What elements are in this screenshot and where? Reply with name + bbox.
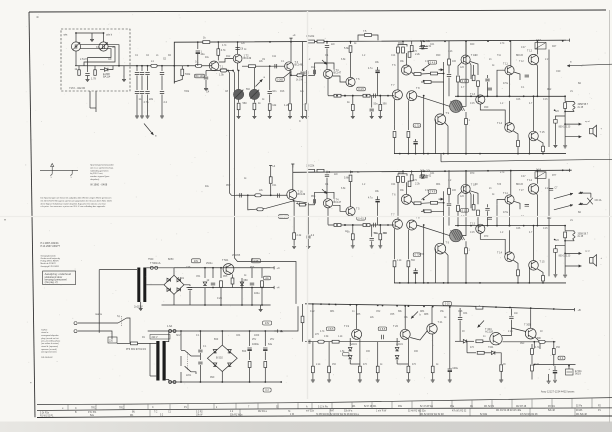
svg-text:R88: R88 bbox=[424, 314, 429, 316]
junction J129 bbox=[241, 304, 243, 306]
head top wire bbox=[76, 33, 104, 42]
wire bbox=[249, 331, 251, 346]
svg-text:5.6k: 5.6k bbox=[344, 47, 349, 50]
junction J108 (ch2) bbox=[564, 253, 566, 255]
junction J96 (ch2) bbox=[465, 282, 467, 284]
table column tick t9 bbox=[257, 403, 259, 408]
svg-text:C21: C21 bbox=[430, 44, 435, 46]
junction J155 bbox=[404, 305, 406, 307]
diode GD1 bbox=[105, 68, 108, 72]
svg-text:C14: C14 bbox=[391, 55, 396, 57]
wire (ch1) bbox=[458, 62, 462, 75]
capacitor C1a1 bbox=[140, 73, 144, 75]
wire (ch1) bbox=[528, 138, 530, 154]
junction J21 bbox=[487, 40, 489, 42]
feedback wire ch2 bbox=[248, 195, 294, 210]
wire bbox=[459, 321, 461, 342]
resistor R127 (ch1) bbox=[397, 47, 400, 53]
svg-text:S1/S2:: S1/S2: bbox=[41, 330, 48, 332]
wire (ch1) bbox=[509, 101, 511, 123]
wire (ch2) bbox=[564, 266, 566, 275]
svg-text:T 6: T 6 bbox=[392, 193, 396, 196]
wire (ch1) bbox=[421, 73, 431, 76]
wire (ch2) bbox=[487, 211, 489, 225]
boxed label (ch2) bbox=[413, 253, 421, 257]
wire arrow into driver (ch1) bbox=[439, 69, 444, 71]
svg-text:W 1960 - 0408: W 1960 - 0408 bbox=[90, 182, 108, 186]
junction J6 bbox=[147, 65, 149, 67]
table column tick t2 bbox=[95, 405, 97, 410]
junction J56 (ch1) bbox=[447, 153, 449, 155]
svg-text:W1 R1 52 48 R2 W1 48a: W1 R1 52 48 R2 W1 48a bbox=[496, 410, 522, 412]
wire bbox=[174, 76, 182, 82]
wire (ch1) bbox=[470, 63, 472, 80]
resistor R136 (ch2) bbox=[472, 205, 475, 211]
svg-text:W1 52 48 R2 W1 52 R2: W1 52 48 R2 W1 52 R2 bbox=[420, 414, 445, 416]
resistor R313 bbox=[500, 365, 503, 372]
junction J131 bbox=[251, 304, 253, 306]
terminal rail ch2 bbox=[566, 169, 570, 172]
wire bbox=[467, 352, 476, 354]
svg-text:T 7: T 7 bbox=[391, 84, 395, 87]
svg-text:CD 4A: CD 4A bbox=[595, 199, 602, 202]
label leader line (ch1) bbox=[422, 64, 431, 70]
capacitor C301 bbox=[308, 340, 310, 344]
svg-text:R70: R70 bbox=[470, 173, 475, 175]
capacitor C101 bbox=[85, 74, 89, 76]
junction J85 (ch2) bbox=[457, 225, 459, 227]
wire bbox=[238, 110, 240, 116]
wire bbox=[238, 100, 240, 103]
svg-text:7172 - 342.00: 7172 - 342.00 bbox=[69, 86, 86, 90]
junction J163 bbox=[530, 307, 532, 309]
wire (ch2) bbox=[465, 254, 467, 283]
margin speck2 bbox=[30, 382, 32, 383]
svg-text:24V: 24V bbox=[194, 260, 199, 263]
junction J111 bbox=[328, 171, 330, 173]
junction J33 (ch1) bbox=[379, 95, 381, 97]
wire (ch1) bbox=[411, 41, 413, 45]
wire bbox=[554, 366, 556, 370]
svg-text:470u: 470u bbox=[503, 83, 509, 85]
wire (ch1) bbox=[377, 73, 379, 96]
svg-text:1000: 1000 bbox=[254, 335, 260, 337]
junction J166 bbox=[533, 341, 535, 343]
wire (ch1) bbox=[513, 131, 518, 140]
svg-text:0 365: 0 365 bbox=[277, 79, 284, 82]
boxed label bbox=[264, 276, 271, 280]
wire (ch1) bbox=[326, 41, 328, 44]
resistor R302 bbox=[332, 340, 339, 343]
svg-text:BC148: BC148 bbox=[295, 64, 303, 67]
wire (ch2) bbox=[394, 229, 396, 259]
fuse box F101 (ch2) bbox=[535, 172, 546, 179]
ground (ch2) bbox=[563, 275, 567, 277]
svg-text:8Ω: 8Ω bbox=[578, 212, 581, 214]
table column tick t23 bbox=[531, 399, 533, 407]
table column tick u3 bbox=[329, 409, 331, 415]
wire bbox=[249, 352, 251, 361]
junction J149 bbox=[335, 304, 337, 306]
junction J68 (ch1) bbox=[564, 111, 566, 113]
wire (ch2) bbox=[397, 182, 399, 219]
wire (ch2) bbox=[514, 201, 520, 209]
wire bbox=[220, 268, 222, 278]
wire bbox=[241, 278, 243, 288]
table column tick u4 bbox=[419, 409, 421, 416]
svg-text:100u 10k: 100u 10k bbox=[420, 40, 431, 43]
wire (ch1) bbox=[510, 41, 512, 66]
wire (ch2) bbox=[371, 225, 373, 237]
electrolytic C303 bbox=[448, 368, 452, 370]
svg-text:2x115V: 2x115V bbox=[134, 305, 143, 309]
wire bbox=[232, 274, 234, 278]
wire bbox=[306, 70, 308, 103]
wire bbox=[306, 110, 308, 116]
junction J92 (ch2) bbox=[399, 282, 401, 284]
terminal +4 bbox=[271, 286, 275, 289]
signal bus channel 1 bbox=[75, 65, 212, 67]
wire (ch2) bbox=[431, 203, 443, 212]
svg-text:B 502: B 502 bbox=[216, 356, 223, 360]
junction J97 (ch2) bbox=[517, 282, 519, 284]
wire (ch1) bbox=[379, 111, 381, 117]
junction J114 bbox=[423, 170, 425, 172]
svg-text:9019: 9019 bbox=[575, 372, 581, 376]
wire bbox=[350, 363, 360, 365]
svg-text:64u: 64u bbox=[268, 343, 273, 346]
capacitor C204 (ch2) bbox=[549, 188, 553, 190]
table column tick t15 bbox=[371, 402, 373, 408]
wire bbox=[359, 373, 361, 380]
resistor R101 bbox=[78, 70, 81, 76]
svg-text:2x 61: 2x 61 bbox=[426, 175, 432, 177]
junction J113 bbox=[402, 171, 404, 173]
wire bbox=[94, 66, 96, 70]
svg-text:7k R5 W2 R1 52 48 R2 W1 52 48: 7k R5 W2 R1 52 48 R2 W1 52 48 R2 W1 a bbox=[316, 414, 360, 416]
wire T12 emitter (ch1) bbox=[536, 64, 539, 97]
svg-text:T304: T304 bbox=[488, 347, 494, 349]
svg-text:C64: C64 bbox=[236, 335, 241, 337]
table column tick t8 bbox=[235, 404, 237, 409]
wire bbox=[221, 372, 223, 383]
svg-text:52 R4k: 52 R4k bbox=[480, 414, 488, 416]
transistor T111 (ch2) bbox=[505, 195, 514, 204]
capacitor C1a0 bbox=[135, 73, 139, 75]
wire (ch2) bbox=[407, 230, 409, 259]
supply rail channel 2 bbox=[293, 170, 572, 172]
wire (ch1) bbox=[477, 86, 479, 96]
diode D510 bbox=[213, 350, 217, 353]
svg-text:mit 20 kOhm/V Messgerat; gemes: mit 20 kOhm/V Messgerat; gemessen gegenu… bbox=[41, 199, 113, 202]
resistor R137 (ch2) bbox=[477, 210, 480, 216]
junction J11 bbox=[217, 41, 219, 43]
ground bbox=[306, 247, 310, 249]
wire bbox=[136, 76, 138, 91]
signal bus ch1 part2 bbox=[242, 65, 285, 67]
svg-text:0 20: 0 20 bbox=[445, 303, 450, 306]
resistor R304 bbox=[328, 366, 331, 373]
wire (ch2) bbox=[565, 238, 574, 241]
svg-text:BC149: BC149 bbox=[298, 193, 306, 196]
resistor R120 (ch1) bbox=[308, 40, 315, 43]
wire (ch1) bbox=[407, 138, 409, 154]
diode D310 bbox=[463, 340, 466, 344]
resistor R141 (ch2) bbox=[542, 276, 545, 282]
junction J100 (ch2) bbox=[336, 224, 338, 226]
junction J41 (ch1) bbox=[479, 153, 481, 155]
svg-text:0.15: 0.15 bbox=[470, 103, 475, 105]
driver bus ch1 (ch1) bbox=[328, 95, 394, 97]
boxed label BC149 bbox=[195, 74, 205, 78]
svg-text:-: - bbox=[601, 134, 602, 137]
svg-text:nulleiding gemeten: nulleiding gemeten bbox=[90, 169, 109, 172]
table column tick t26 bbox=[591, 398, 593, 407]
capacitor C121 (ch2) bbox=[488, 217, 492, 219]
wire bbox=[294, 201, 309, 203]
capacitor C121 (ch1) bbox=[488, 88, 492, 90]
wire (ch1) bbox=[448, 41, 450, 59]
wire (ch1) bbox=[448, 78, 450, 97]
capacitor C311 bbox=[509, 317, 513, 319]
terminal +C bbox=[271, 266, 275, 269]
capacitor C122 coupling (ch2) bbox=[525, 204, 529, 206]
transistor T113 (ch2) bbox=[476, 224, 485, 233]
resistor R316 bbox=[552, 349, 555, 355]
corner mark bbox=[37, 17, 39, 18]
svg-text:ohne Signal. Schakelaar stand:: ohne Signal. Schakelaar stand: afspelen.… bbox=[41, 202, 107, 205]
resistor R138 (ch2) bbox=[564, 232, 567, 238]
wire bbox=[199, 331, 201, 349]
transistor T106 (ch1) bbox=[401, 65, 411, 75]
wire bbox=[359, 339, 361, 366]
wire (ch2) bbox=[536, 170, 538, 184]
mains lead L bbox=[78, 322, 118, 324]
junction J140 bbox=[180, 381, 182, 383]
junction J46 (ch1) bbox=[457, 95, 459, 97]
junction J82 (ch2) bbox=[537, 225, 539, 227]
junction J83 (ch2) bbox=[509, 225, 511, 227]
junction J80 (ch2) bbox=[479, 282, 481, 284]
resistor R124 (ch1) bbox=[363, 94, 370, 97]
ground bbox=[376, 380, 380, 382]
wire bbox=[500, 371, 502, 379]
junction J1 bbox=[75, 32, 77, 34]
wire bbox=[161, 95, 163, 116]
svg-text:mains: mains bbox=[95, 312, 103, 316]
ground bbox=[547, 381, 551, 383]
resistor R122 (ch1) bbox=[349, 46, 352, 53]
junction J29 bbox=[269, 65, 271, 67]
wire (ch1) bbox=[465, 41, 467, 55]
wire (ch1) bbox=[457, 82, 459, 96]
wire (ch1) bbox=[564, 137, 566, 146]
wire bbox=[249, 368, 251, 382]
svg-text:o/w k: o/w k bbox=[106, 33, 113, 37]
wire (ch2) bbox=[379, 240, 381, 246]
feedback arrow (ch2) bbox=[322, 189, 327, 194]
capacitor C123 (ch1) bbox=[447, 75, 451, 77]
wire (ch2) bbox=[352, 240, 354, 246]
junction J119 bbox=[537, 170, 539, 172]
junction J139 bbox=[280, 330, 282, 332]
resistor R120 (ch2) bbox=[308, 169, 315, 172]
ground bbox=[358, 380, 362, 382]
resistor R204 bbox=[257, 208, 263, 211]
capacitor C111 bbox=[268, 92, 272, 94]
wire bbox=[141, 95, 143, 116]
boxed label (ch1) bbox=[428, 61, 437, 65]
junction J8 bbox=[173, 65, 175, 67]
bias supply rail bbox=[305, 304, 571, 310]
resistor R145 (ch1) bbox=[408, 52, 411, 58]
record switch arrow b bbox=[256, 79, 263, 86]
transistor T305 bbox=[525, 328, 536, 339]
junction J168 bbox=[568, 365, 570, 367]
svg-text:T 501: T 501 bbox=[222, 259, 229, 262]
wire (ch2) bbox=[448, 195, 450, 203]
wire bbox=[269, 110, 271, 116]
wire bbox=[554, 374, 556, 380]
ground bbox=[553, 380, 557, 382]
wire (ch1) bbox=[394, 138, 396, 154]
head wire a bbox=[81, 45, 120, 66]
capacitor C115 (ch2) bbox=[374, 223, 376, 227]
svg-text:220n: 220n bbox=[186, 375, 192, 377]
wire bbox=[217, 42, 219, 49]
electrolytic C513 bbox=[263, 347, 267, 349]
wire bbox=[530, 309, 532, 328]
capacitor C1a3 bbox=[160, 73, 164, 75]
junction J22 bbox=[509, 40, 511, 42]
capacitor C113 (ch2) bbox=[325, 175, 329, 177]
wire vert (ch2) bbox=[435, 249, 437, 283]
svg-text:(enregistrement): (enregistrement) bbox=[41, 351, 57, 354]
table column tick t3 bbox=[123, 405, 125, 410]
svg-text:52k R1 W1a: 52k R1 W1a bbox=[230, 414, 243, 416]
resistor R136 (ch1) bbox=[472, 75, 475, 81]
wire bbox=[180, 331, 182, 350]
wire (ch1) bbox=[394, 100, 396, 131]
svg-text:P2 W1: P2 W1 bbox=[548, 406, 556, 408]
junction J73 (ch2) bbox=[423, 199, 425, 201]
mains plug bbox=[74, 322, 77, 333]
svg-text:0 4.5: 0 4.5 bbox=[358, 217, 364, 220]
capacitor C123 (ch2) bbox=[447, 204, 451, 206]
diode D504 bbox=[177, 288, 180, 292]
junction J157 bbox=[423, 306, 425, 308]
wire bbox=[161, 76, 163, 91]
head wire c bbox=[81, 49, 112, 58]
wire bbox=[289, 71, 291, 103]
wire (ch2) bbox=[564, 253, 566, 266]
resistor R315 bbox=[531, 365, 534, 371]
terminal +4 bbox=[289, 38, 292, 42]
junction J107 (ch2) bbox=[564, 240, 566, 242]
boxed label (ch2) bbox=[357, 217, 366, 221]
driver transformer S101 (ch1) bbox=[450, 100, 462, 112]
svg-text:10k W: 10k W bbox=[196, 415, 203, 417]
svg-text:25V: 25V bbox=[270, 339, 275, 341]
junction J134 bbox=[180, 330, 182, 332]
diode D302 bbox=[348, 356, 352, 359]
svg-text:1.21: 1.21 bbox=[448, 51, 453, 53]
svg-text:470u: 470u bbox=[503, 212, 509, 214]
wire (ch1) bbox=[398, 45, 407, 47]
svg-text:2.5mH: 2.5mH bbox=[80, 59, 87, 61]
junction J45 (ch1) bbox=[533, 95, 535, 97]
capacitor C310 bbox=[458, 318, 462, 320]
junction J109 bbox=[247, 194, 249, 196]
junction J39 (ch1) bbox=[443, 153, 445, 155]
wire (ch1) bbox=[462, 41, 466, 107]
resistor R111 bbox=[217, 49, 220, 56]
junction J91 (ch2) bbox=[523, 225, 525, 227]
ground (ch1) bbox=[553, 146, 557, 148]
wire (ch1) bbox=[487, 75, 489, 78]
wire (ch2) bbox=[533, 226, 535, 261]
resistor R506 bbox=[261, 281, 264, 288]
junction J144 bbox=[264, 381, 266, 383]
junction J112 bbox=[351, 171, 353, 173]
junction J74 (ch2) bbox=[423, 209, 425, 211]
volume trimmer P101 bbox=[233, 89, 243, 99]
svg-text:AA119: AA119 bbox=[350, 343, 358, 346]
loudspeaker LS (ch2) bbox=[590, 258, 593, 264]
transistor T110 (ch2) bbox=[461, 184, 470, 193]
svg-text:R85: R85 bbox=[356, 314, 361, 316]
svg-text:5.12 k Pa: 5.12 k Pa bbox=[318, 406, 328, 408]
svg-text:52k W a: 52k W a bbox=[344, 411, 353, 413]
svg-text:T 27: T 27 bbox=[519, 190, 524, 192]
electrolytic C125 (ch1) bbox=[375, 69, 379, 71]
electrolytic C125 (ch2) bbox=[375, 199, 379, 201]
wire bbox=[220, 288, 222, 305]
junction J148 bbox=[328, 303, 330, 305]
resistor R140 (ch1) bbox=[517, 141, 520, 147]
boxed label (ch2) bbox=[461, 209, 469, 213]
resistor R133 (ch2) bbox=[407, 261, 410, 267]
capacitor C124 bbox=[235, 48, 239, 50]
transistor T106 (ch2) bbox=[401, 194, 411, 204]
svg-text:op al: op al bbox=[585, 121, 590, 123]
switch link bbox=[187, 352, 189, 370]
junction (ch2) bbox=[554, 239, 556, 241]
ground bbox=[122, 80, 126, 82]
wire bbox=[87, 76, 89, 79]
svg-text:C52: C52 bbox=[376, 311, 381, 313]
border top bbox=[29, 10, 606, 12]
svg-text:R64: R64 bbox=[436, 184, 441, 186]
wire bbox=[302, 304, 304, 316]
table column tick t25 bbox=[571, 399, 573, 408]
mains label box bbox=[150, 335, 170, 340]
head wire b bbox=[84, 47, 115, 66]
wire bbox=[205, 71, 207, 77]
junction J36 (ch1) bbox=[443, 73, 445, 75]
junction J104 (ch2) bbox=[379, 224, 381, 226]
junction J28 bbox=[254, 65, 256, 67]
junction J53 (ch1) bbox=[399, 153, 401, 155]
wire bbox=[328, 373, 330, 380]
svg-text:3058 58.7: 3058 58.7 bbox=[578, 103, 589, 106]
ground (ch2) bbox=[378, 246, 382, 248]
wire bbox=[166, 380, 169, 383]
svg-text:C34: C34 bbox=[391, 184, 396, 186]
resistor R140 (ch2) bbox=[517, 270, 520, 276]
wire bbox=[141, 76, 143, 91]
wire bbox=[264, 352, 266, 361]
